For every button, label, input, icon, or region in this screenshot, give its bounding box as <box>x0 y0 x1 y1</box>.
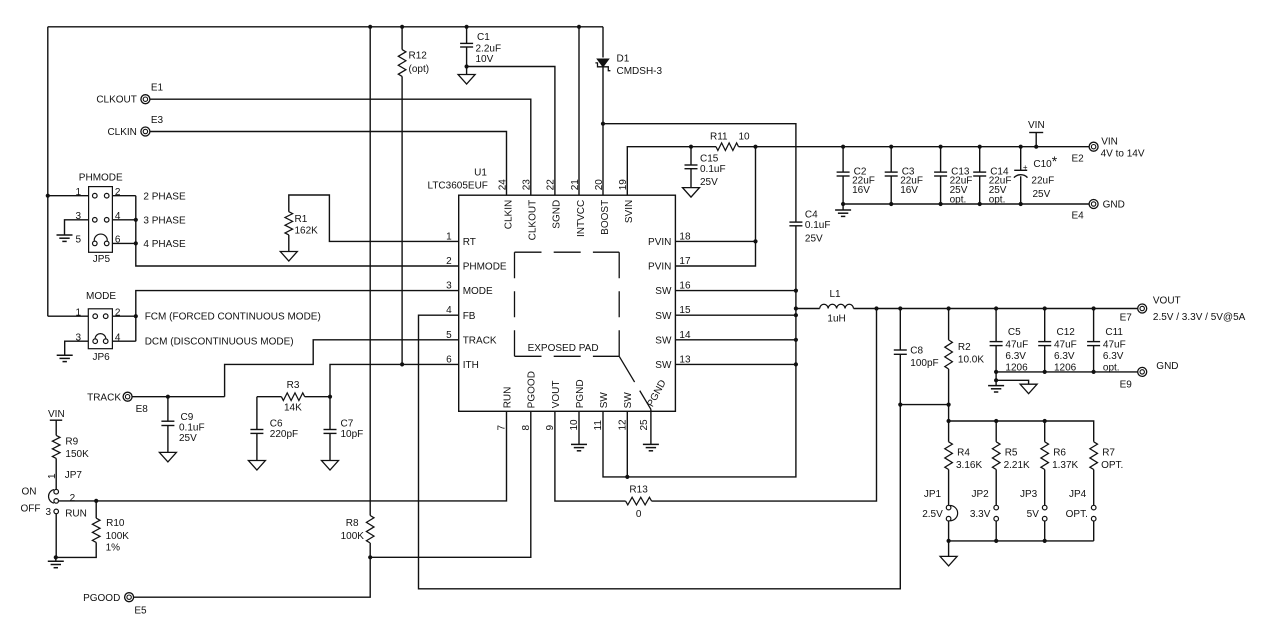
svg-text:1: 1 <box>47 473 58 479</box>
wire R3 to C7 node <box>305 396 330 398</box>
svg-text:R1: R1 <box>295 214 308 225</box>
turret E7 VOUT <box>1138 304 1147 313</box>
wire left border vertical <box>47 27 49 316</box>
junction GND rail / C3 <box>889 202 893 206</box>
capacitor C11 <box>1087 341 1100 343</box>
wire SW pin 15 stub <box>675 314 796 316</box>
junction VOUT rail / C8 <box>898 306 902 310</box>
svg-text:5: 5 <box>75 235 81 246</box>
JP6 pin 4 circle <box>103 339 108 344</box>
svg-text:6.3V: 6.3V <box>1005 351 1026 362</box>
wire JP5 pin1 from left rail <box>48 195 89 197</box>
svg-text:SW: SW <box>655 360 672 371</box>
wire R10 to ground corner <box>56 542 96 557</box>
JP5 pin 3 circle <box>93 218 98 223</box>
op-amp U1 LTC3605EUF box <box>459 195 676 411</box>
wire PVIN pin 18 stub <box>675 240 755 242</box>
U1 pin 25 exposed pad diagonal lead <box>619 356 651 409</box>
wire PGOOD pin 8 <box>370 411 531 557</box>
svg-text:JP1: JP1 <box>924 489 942 500</box>
wire C7 to ground <box>329 433 331 460</box>
capacitor C15 <box>685 164 698 166</box>
junction SW bus pin 14 <box>794 338 798 342</box>
junction VOUT rail / C5 <box>994 306 998 310</box>
wire R6 top lead <box>1044 421 1046 442</box>
svg-text:47uF: 47uF <box>1103 340 1126 351</box>
svg-text:PVIN: PVIN <box>648 237 671 248</box>
junction top rail / R12 <box>400 25 404 29</box>
resistor R4 <box>945 442 953 470</box>
capacitor C13 <box>934 171 947 173</box>
svg-text:25V: 25V <box>805 233 823 244</box>
svg-text:R9: R9 <box>65 437 78 448</box>
resistor R13 <box>626 497 652 505</box>
junction top rail / C1 <box>465 25 469 29</box>
svg-text:E8: E8 <box>136 404 149 415</box>
svg-text:PHMODE: PHMODE <box>79 173 123 184</box>
wire C13 bottom lead <box>940 176 942 204</box>
wire R2 to divider rail <box>948 421 950 442</box>
capacitor C6 <box>250 429 263 431</box>
JP5 pin 6 circle <box>104 241 109 246</box>
resistor R11 <box>716 143 739 151</box>
wire R2 top lead <box>948 309 950 340</box>
wire JP5 pin2 stub <box>112 195 135 197</box>
svg-text:+: + <box>1023 163 1028 172</box>
svg-text:16V: 16V <box>900 185 918 196</box>
JP5 pin 2 circle <box>104 193 109 198</box>
capacitor C3 <box>885 171 898 173</box>
svg-text:16V: 16V <box>852 185 870 196</box>
junction FB node / C8 <box>898 403 902 407</box>
wire R13 to VOUT <box>652 309 877 502</box>
capacitor C12 top lead <box>1044 309 1046 342</box>
wire D1 cathode to BOOST <box>602 67 604 196</box>
svg-text:LTC3605EUF: LTC3605EUF <box>428 181 488 192</box>
svg-text:C8: C8 <box>910 345 923 356</box>
svg-text:0.1uF: 0.1uF <box>700 164 726 175</box>
connector JP3 bottom circle <box>1042 516 1047 521</box>
resistor R8 <box>366 516 374 544</box>
junction divider rail / R5 <box>994 419 998 423</box>
resistor R9 <box>52 435 60 458</box>
svg-text:10: 10 <box>739 132 751 143</box>
JP5 pin 5 circle <box>93 241 98 246</box>
svg-text:3: 3 <box>45 507 51 518</box>
capacitor C12 <box>1038 341 1051 343</box>
wire divider top rail <box>949 421 1094 442</box>
JP6 pin 2 circle <box>103 314 108 319</box>
junction VIN rail / C10 <box>1019 145 1023 149</box>
svg-text:E4: E4 <box>1072 211 1085 222</box>
wire PHMODE bus to pin 2 <box>136 196 459 266</box>
wire ground stem below JP7 <box>55 557 57 561</box>
wire PVIN feed vertical <box>675 147 755 266</box>
ground at C2 bank <box>835 209 851 211</box>
junction VIN rail / C14 <box>978 145 982 149</box>
capacitor C2 top lead <box>842 147 844 172</box>
svg-text:CLKIN: CLKIN <box>107 127 136 138</box>
junction SW bus pin 15 <box>794 313 798 317</box>
wire ITH pin to C7 node <box>330 364 459 396</box>
svg-text:0: 0 <box>636 509 642 520</box>
svg-text:C15: C15 <box>700 153 719 164</box>
JP1 shunt arc <box>950 506 958 521</box>
wire JP5 pin6 stub <box>112 242 135 244</box>
capacitor C9 <box>161 420 174 422</box>
connector JP1 bottom circle <box>946 516 951 521</box>
svg-text:CLKIN: CLKIN <box>503 200 514 229</box>
turret E1 CLKOUT <box>141 95 150 104</box>
wire RUN from JP7 to pin 7 <box>59 411 507 501</box>
JP7 shunt arc pins 1-2 <box>49 490 54 504</box>
connector JP3 top circle <box>1042 505 1047 510</box>
svg-text:6.3V: 6.3V <box>1054 351 1075 362</box>
junction ITH / R3 / C7 <box>328 395 332 399</box>
wire VOUT pin 9 to R13 <box>555 411 626 501</box>
svg-text:10pF: 10pF <box>341 429 364 440</box>
connector JP7 pin1 circle <box>54 489 59 494</box>
diode D1 CMDSH-3 <box>597 59 609 67</box>
wire JP6 pin1 from left rail <box>48 315 89 317</box>
junction MODE / JP6 pin2 <box>134 314 138 318</box>
svg-text:C9: C9 <box>181 412 194 423</box>
svg-text:162K: 162K <box>295 226 319 237</box>
turret E5 PGOOD <box>125 593 134 602</box>
wire C12 bottom lead <box>1044 346 1046 372</box>
svg-text:2: 2 <box>70 493 76 504</box>
capacitor C10 top lead <box>1020 147 1022 171</box>
wire R10 top lead <box>95 501 97 518</box>
ground at C5 (chassis) <box>1020 384 1037 394</box>
svg-text:JP5: JP5 <box>93 254 111 265</box>
wire GND rail <box>843 203 1089 205</box>
svg-text:R4: R4 <box>957 447 970 458</box>
junction C1 / SGND <box>465 64 469 68</box>
junction R8 / PGOOD <box>368 555 372 559</box>
wire RT pin to R1 <box>289 195 459 241</box>
wire C15 to R11 <box>691 146 716 148</box>
wire MODE bus to pin 3 <box>136 291 459 342</box>
wire L1 to VOUT rail <box>854 308 1138 310</box>
wire SW bus vertical <box>795 226 797 365</box>
wire TRACK turret to jog <box>132 396 225 398</box>
diode D1 anode lead <box>602 27 604 58</box>
wire C5 bottom lead <box>995 346 997 372</box>
svg-text:SW: SW <box>599 392 610 409</box>
junction FB node / R2 <box>947 403 951 407</box>
capacitor C10 polarized <box>1014 169 1027 171</box>
connector JP7 pin2 circle <box>54 499 59 504</box>
svg-text:C6: C6 <box>270 419 283 430</box>
connector JP5 body <box>89 187 113 253</box>
junction VIN rail / VIN stub <box>1034 145 1038 149</box>
capacitor C14 top lead <box>979 147 981 172</box>
junction R12 / ITH <box>400 362 404 366</box>
svg-text:E1: E1 <box>151 83 164 94</box>
wire R8 bottom to PGOOD pin <box>369 543 371 557</box>
wire INTVCC top rail <box>48 26 603 28</box>
svg-text:R8: R8 <box>346 518 359 529</box>
wire R1 to ground <box>288 235 290 252</box>
wire R5 top lead <box>995 421 997 442</box>
svg-text:C5: C5 <box>1008 327 1021 338</box>
wire JP6 pin3 to ground <box>65 341 89 355</box>
capacitor C5 <box>990 341 1003 343</box>
svg-text:CMDSH-3: CMDSH-3 <box>617 66 663 77</box>
wire SW pin 13 stub <box>675 363 796 365</box>
wire C11 bottom lead <box>1093 346 1095 372</box>
junction top rail / R8 <box>368 25 372 29</box>
capacitor C15 top lead <box>690 147 692 165</box>
svg-text:R5: R5 <box>1005 447 1018 458</box>
capacitor C1 <box>460 42 473 44</box>
junction SW bus pin 16 <box>794 289 798 293</box>
svg-text:PGOOD: PGOOD <box>83 593 120 604</box>
svg-text:E2: E2 <box>1072 153 1085 164</box>
svg-text:CLKOUT: CLKOUT <box>528 200 539 241</box>
wire SVIN pin 19 hook <box>627 147 691 196</box>
ground at JP6 pin3 <box>57 354 73 356</box>
junction TRACK / C9 <box>166 395 170 399</box>
svg-text:TRACK: TRACK <box>463 335 497 346</box>
svg-text:U1: U1 <box>474 167 487 178</box>
svg-text:SW: SW <box>655 311 672 322</box>
junction SW bus pin 13 <box>794 362 798 366</box>
junction GND rail / C13 <box>939 202 943 206</box>
JP6 pin 1 circle <box>93 314 98 319</box>
junction PHMODE / JP5 pin4 <box>134 218 138 222</box>
wire JP7 pin3 to ground <box>55 514 57 558</box>
svg-text:VIN: VIN <box>1028 120 1045 131</box>
capacitor C9 top lead <box>167 397 169 422</box>
svg-text:2.21K: 2.21K <box>1004 460 1030 471</box>
resistor R10 <box>92 518 100 542</box>
svg-text:C10: C10 <box>1033 159 1052 170</box>
svg-text:CLKOUT: CLKOUT <box>96 95 137 106</box>
wire divider bottom rail <box>949 540 1094 542</box>
connector JP6 body <box>88 309 112 349</box>
svg-text:EXPOSED PAD: EXPOSED PAD <box>528 343 599 354</box>
svg-text:100K: 100K <box>106 531 130 542</box>
junction left rail / JP5 pin1 <box>46 194 50 198</box>
svg-text:1.37K: 1.37K <box>1052 460 1078 471</box>
connector JP7 pin3 circle <box>54 509 59 514</box>
wire SW pin 16 stub <box>675 290 796 292</box>
junction top rail / INTVCC pin <box>577 25 581 29</box>
svg-text:R3: R3 <box>287 380 300 391</box>
svg-text:PGND: PGND <box>575 379 586 408</box>
svg-text:BOOST: BOOST <box>600 200 611 235</box>
svg-text:FCM (FORCED CONTINUOUS MODE): FCM (FORCED CONTINUOUS MODE) <box>145 312 321 323</box>
capacitor C2 <box>837 171 850 173</box>
svg-text:47uF: 47uF <box>1054 340 1077 351</box>
ground at C1 <box>458 75 475 85</box>
ground at PGND pin 25 <box>643 443 659 445</box>
capacitor C14 <box>973 171 986 173</box>
wire R12 upper lead <box>401 27 403 50</box>
junction PVIN pin 18 <box>753 239 757 243</box>
junction bottom rail / JP1 <box>947 539 951 543</box>
VIN stub at R9 <box>50 419 62 421</box>
svg-text:R6: R6 <box>1053 447 1066 458</box>
svg-text:E5: E5 <box>134 606 147 617</box>
capacitor C8 <box>894 349 907 351</box>
svg-text:JP3: JP3 <box>1020 489 1038 500</box>
wire JP3 to bottom rail <box>1044 521 1046 541</box>
wire INTVCC pin 21 <box>578 27 580 195</box>
capacitor C7 <box>324 429 337 431</box>
junction BOOST node <box>601 122 605 126</box>
svg-text:2.5V: 2.5V <box>922 509 943 520</box>
ground at JP5 pin3 <box>57 234 73 236</box>
capacitor C4 <box>789 221 802 223</box>
capacitor C5 top lead <box>995 309 997 342</box>
resistor R7 <box>1090 442 1098 470</box>
resistor R12 <box>398 50 406 77</box>
JP6 shunt arc pins 3-4 <box>95 334 106 339</box>
wire C1 bottom lead <box>466 47 468 67</box>
wire SW pin 12 stub <box>626 411 628 477</box>
svg-text:47uF: 47uF <box>1005 340 1028 351</box>
wire PGND pin 10 to ground <box>578 411 580 444</box>
capacitor C6 top lead <box>256 397 258 430</box>
svg-text:MODE: MODE <box>86 291 116 302</box>
svg-text:5V: 5V <box>1027 509 1040 520</box>
wire FB pin around bottom to divider <box>419 315 901 589</box>
wire R7 to JP4 <box>1093 470 1095 506</box>
junction VOUT gnd / C12 <box>1043 370 1047 374</box>
svg-text:RUN: RUN <box>502 387 513 409</box>
junction VOUT rail / R13 feed <box>874 306 878 310</box>
JP5 pin 4 circle <box>104 218 109 223</box>
resistor R5 <box>992 442 1000 470</box>
junction VOUT rail / R2 <box>947 306 951 310</box>
svg-text:INTVCC: INTVCC <box>576 200 587 237</box>
junction VOUT rail / C12 <box>1043 306 1047 310</box>
junction VIN rail / C2 <box>841 145 845 149</box>
svg-text:VIN: VIN <box>48 409 65 420</box>
svg-text:100pF: 100pF <box>910 358 938 369</box>
ground at C15 <box>683 188 700 198</box>
wire JP2 to bottom rail <box>995 521 997 541</box>
svg-text:C7: C7 <box>341 419 354 430</box>
junction GND rail / C2 <box>841 202 845 206</box>
turret E2 VIN <box>1089 142 1098 151</box>
svg-text:E3: E3 <box>151 115 164 126</box>
wire JP6 pin2 stub <box>112 315 135 317</box>
svg-text:10V: 10V <box>476 54 494 65</box>
wire R5 to JP2 <box>995 470 997 506</box>
ground at C6 <box>248 461 265 471</box>
svg-text:GND: GND <box>1156 361 1178 372</box>
wire PGOOD to E5 <box>134 557 371 597</box>
junction VIN rail / C15 <box>689 145 693 149</box>
wire C15 to ground <box>690 169 692 188</box>
svg-text:VOUT: VOUT <box>551 381 562 409</box>
svg-text:(opt): (opt) <box>409 64 430 75</box>
svg-text:GND: GND <box>1103 200 1125 211</box>
junction VOUT gnd / C11 <box>1092 370 1096 374</box>
svg-text:1uH: 1uH <box>827 313 845 324</box>
capacitor C8 top lead <box>899 309 901 351</box>
wire divider ground stem <box>948 541 950 557</box>
wire C2 ground stem <box>842 204 844 210</box>
wire C2 bottom lead <box>842 176 844 204</box>
wire SGND pin 22 to C1 <box>467 67 555 196</box>
junction bottom rail / JP2 <box>994 539 998 543</box>
wire JP1 to bottom rail <box>948 521 950 541</box>
svg-text:2.2uF: 2.2uF <box>476 44 502 55</box>
wire R8 top from INTVCC rail <box>369 27 371 516</box>
svg-text:VIN: VIN <box>1101 137 1118 148</box>
svg-text:DCM (DISCONTINUOUS MODE): DCM (DISCONTINUOUS MODE) <box>145 337 294 348</box>
svg-text:SW: SW <box>623 392 634 409</box>
svg-text:14K: 14K <box>284 402 302 413</box>
connector JP4 top circle <box>1091 505 1096 510</box>
svg-text:VOUT: VOUT <box>1153 296 1181 307</box>
capacitor C7 top lead <box>329 397 331 430</box>
JP6 pin 3 circle <box>93 339 98 344</box>
resistor R2 <box>945 340 953 369</box>
wire C3 bottom lead <box>890 176 892 204</box>
svg-text:SW: SW <box>655 286 672 297</box>
svg-text:0.1uF: 0.1uF <box>805 220 831 231</box>
wire SW pin 14 stub <box>675 339 796 341</box>
svg-text:SVIN: SVIN <box>624 200 635 223</box>
wire C10 bottom lead <box>1020 176 1022 204</box>
ground at C5 (earth) <box>988 385 1004 387</box>
wire C6 to R3 <box>257 396 282 398</box>
svg-text:SGND: SGND <box>552 200 563 229</box>
svg-text:150K: 150K <box>65 449 89 460</box>
connector JP1 top circle <box>946 505 951 510</box>
svg-text:JP7: JP7 <box>65 470 83 481</box>
resistor R1 <box>285 212 293 235</box>
wire C14 bottom lead <box>979 176 981 204</box>
svg-text:L1: L1 <box>830 289 842 300</box>
svg-text:25: 25 <box>639 419 650 431</box>
junction GND rail / C14 <box>978 202 982 206</box>
svg-text:*: * <box>1052 153 1058 169</box>
svg-text:PGOOD: PGOOD <box>527 371 538 408</box>
svg-text:R12: R12 <box>409 51 428 62</box>
capacitor C11 top lead <box>1093 309 1095 342</box>
svg-text:0.1uF: 0.1uF <box>179 423 205 434</box>
svg-text:OPT.: OPT. <box>1101 460 1123 471</box>
junction PHMODE / JP5 pin6 <box>134 241 138 245</box>
wire BOOST to C4 <box>603 124 796 222</box>
wire JP5 pin4 stub <box>112 219 135 221</box>
junction GND rail / C10 <box>1019 202 1023 206</box>
svg-text:220pF: 220pF <box>270 429 298 440</box>
wire JP6 pin4 stub <box>112 340 135 342</box>
ground at C9 <box>159 452 176 462</box>
svg-text:100K: 100K <box>341 531 365 542</box>
wire JP5 pin3 to ground <box>65 220 89 235</box>
U1 exposed pad dashed outline <box>515 251 620 253</box>
wire PGND pin 25 to ground <box>650 409 652 444</box>
svg-text:PVIN: PVIN <box>648 262 671 273</box>
svg-text:25V: 25V <box>1033 189 1051 200</box>
node VIN stub <box>1035 133 1037 147</box>
svg-text:ON: ON <box>22 487 37 498</box>
svg-text:ITH: ITH <box>463 360 479 371</box>
junction RUN / R10 <box>94 499 98 503</box>
svg-text:4V to 14V: 4V to 14V <box>1101 148 1145 159</box>
JP5 pin 1 circle <box>93 193 98 198</box>
wire VOUT gnd rail <box>996 371 1138 373</box>
